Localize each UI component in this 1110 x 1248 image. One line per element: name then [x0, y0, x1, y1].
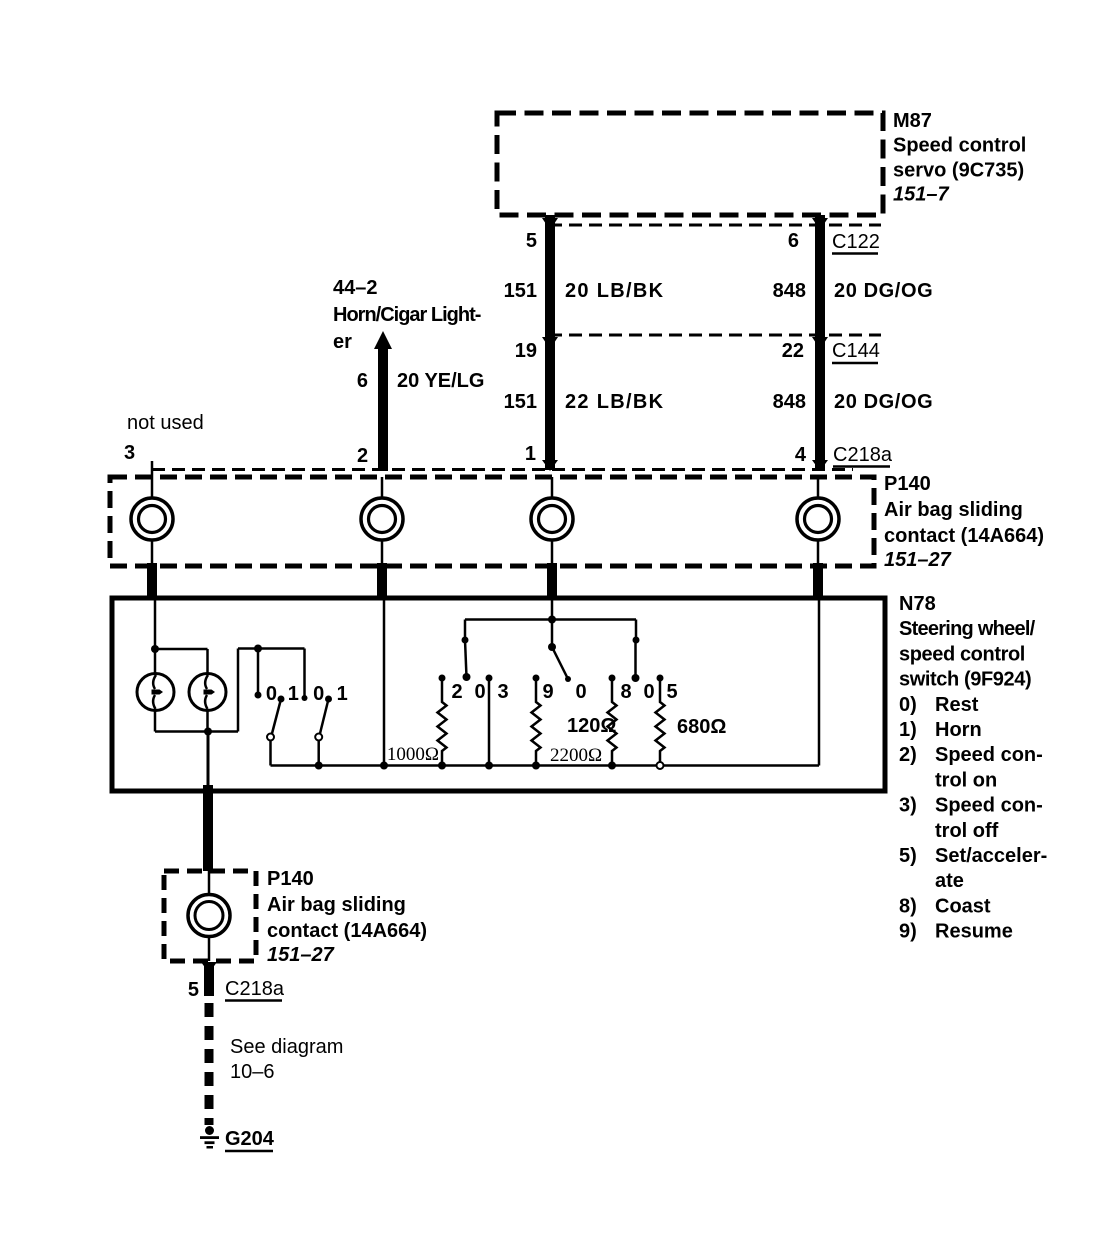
steering wheel switch box N78: [112, 598, 885, 791]
svg-text:Speed con-: Speed con-: [935, 744, 1043, 766]
svg-text:22 LB/BK: 22 LB/BK: [565, 391, 664, 413]
svg-text:0: 0: [643, 681, 654, 703]
svg-text:120Ω: 120Ω: [567, 715, 616, 737]
sliding contact spiral 1: [131, 477, 173, 566]
svg-text:Air bag sliding: Air bag sliding: [884, 499, 1023, 521]
svg-text:contact (14A664): contact (14A664): [267, 920, 427, 942]
svg-text:680Ω: 680Ω: [677, 716, 726, 738]
svg-text:speed control: speed control: [899, 643, 1025, 665]
svg-text:10–6: 10–6: [230, 1061, 275, 1083]
svg-text:44–2: 44–2: [333, 277, 378, 299]
svg-text:G204: G204: [225, 1128, 275, 1150]
dashed wire to ground: [205, 1003, 214, 1125]
resistor R1 1000 ohm: [438, 675, 447, 770]
svg-text:Air bag sliding: Air bag sliding: [267, 894, 406, 916]
air bag sliding contact box P140 lower: [164, 871, 256, 961]
svg-text:not used: not used: [127, 412, 204, 434]
connector C218a dashed line: [152, 468, 853, 471]
wire stub P140 to N78 pin4: [813, 563, 823, 600]
resistor R2 2200 ohm: [532, 675, 541, 770]
label C218a lower: [225, 978, 285, 1001]
label wire 6 20 YE/LG: [357, 370, 485, 392]
horn switch wiper 2: [315, 696, 332, 770]
label 44-2 Horn/Cigar Lighter: [333, 277, 481, 353]
resistor R4 680 ohm: [656, 675, 665, 770]
wire stub P140 to N78 pin3: [147, 563, 157, 600]
wire pin1 inside N78: [548, 598, 556, 647]
svg-text:Horn: Horn: [935, 719, 982, 741]
selector position labels 9 0: [542, 681, 586, 703]
connector C122 dashed line: [549, 224, 881, 227]
selector wiper left: [463, 640, 471, 681]
svg-text:Resume: Resume: [935, 921, 1013, 943]
label circuit 848 20 DG/OG row2: [773, 391, 934, 413]
svg-text:5: 5: [526, 230, 537, 252]
horn symbol right: [189, 674, 226, 711]
label circuit 151 20 LB/BK: [504, 280, 665, 302]
svg-text:3): 3): [899, 795, 917, 817]
svg-text:Speed con-: Speed con-: [935, 795, 1043, 817]
svg-text:C122: C122: [832, 231, 880, 253]
sliding contact spiral 3: [531, 477, 573, 566]
label G204: [225, 1128, 275, 1151]
wire pin3 branch inside N78: [151, 598, 208, 674]
svg-text:1): 1): [899, 719, 917, 741]
svg-text:2): 2): [899, 744, 917, 766]
svg-text:6: 6: [788, 230, 799, 252]
svg-text:0: 0: [474, 681, 485, 703]
wire common bottom rail: [271, 764, 820, 767]
svg-text:Coast: Coast: [935, 895, 991, 917]
label P140 Air bag sliding contact upper: [884, 473, 1044, 571]
wire horn bottoms junction: [155, 711, 238, 736]
svg-text:trol on: trol on: [935, 769, 997, 791]
wire out of lower contact with arrow: [201, 962, 217, 996]
svg-text:22: 22: [782, 340, 804, 362]
sliding contact spiral 4: [797, 477, 839, 566]
label N78 legend: [899, 593, 1047, 943]
svg-text:C144: C144: [832, 340, 880, 362]
air bag sliding contact box P140 upper: [110, 477, 874, 566]
svg-text:20 DG/OG: 20 DG/OG: [834, 391, 933, 413]
svg-text:9): 9): [899, 921, 917, 943]
svg-text:151: 151: [504, 391, 537, 413]
selector wiper center: [548, 643, 571, 682]
svg-text:6: 6: [357, 370, 368, 392]
label C144: [832, 340, 880, 363]
svg-text:1000Ω: 1000Ω: [387, 744, 439, 765]
svg-text:contact (14A664): contact (14A664): [884, 525, 1044, 547]
resistor R3 120 ohm: [608, 675, 617, 770]
label circuit 848 20 DG/OG: [773, 280, 934, 302]
label See diagram 10-6: [230, 1036, 343, 1083]
svg-text:151–7: 151–7: [893, 184, 949, 206]
connector C144 dashed line: [549, 334, 881, 337]
label M87 Speed control servo: [893, 110, 1026, 206]
svg-text:C218a: C218a: [833, 444, 893, 466]
svg-text:5: 5: [666, 681, 677, 703]
svg-text:8): 8): [899, 895, 917, 917]
svg-text:20 LB/BK: 20 LB/BK: [565, 280, 664, 302]
svg-text:0): 0): [899, 694, 917, 716]
svg-text:Steering wheel/: Steering wheel/: [899, 618, 1036, 640]
sliding contact spiral 2: [361, 477, 403, 566]
svg-text:151–27: 151–27: [267, 944, 335, 966]
wire 151 22 LB/BK (C144 to C218a): [542, 335, 558, 471]
svg-text:Horn/Cigar Light-: Horn/Cigar Light-: [333, 304, 481, 326]
svg-text:0: 0: [313, 683, 324, 705]
off-page arrow to 44-2 Horn/Cigar Lighter: [374, 331, 392, 471]
svg-text:19: 19: [515, 340, 537, 362]
horn symbol left: [137, 674, 174, 711]
label circuit 151 22 LB/BK: [504, 391, 665, 413]
wire stub pin 3: [151, 461, 154, 477]
selector position labels 8 0 5: [620, 681, 677, 703]
selector wiper right: [632, 640, 640, 682]
svg-text:3: 3: [497, 681, 508, 703]
svg-text:See diagram: See diagram: [230, 1036, 343, 1058]
wire pin2 inside N78: [380, 598, 388, 770]
svg-text:848: 848: [773, 391, 806, 413]
svg-text:trol off: trol off: [935, 820, 999, 842]
sliding contact spiral lower: [188, 871, 230, 961]
svg-text:20 DG/OG: 20 DG/OG: [834, 280, 933, 302]
svg-text:1: 1: [288, 683, 299, 705]
svg-text:1: 1: [337, 683, 348, 705]
svg-text:P140: P140: [884, 473, 931, 495]
label P140 Air bag sliding contact lower: [267, 868, 427, 966]
svg-text:1: 1: [525, 443, 536, 465]
svg-text:C218a: C218a: [225, 978, 285, 1000]
svg-text:ate: ate: [935, 870, 964, 892]
svg-text:848: 848: [773, 280, 806, 302]
svg-text:3: 3: [124, 442, 135, 464]
svg-text:Set/acceler-: Set/acceler-: [935, 845, 1047, 867]
svg-text:0: 0: [575, 681, 586, 703]
wire 151 20 LB/BK (C122 to C144): [542, 215, 558, 335]
wire 848 20 DG/OG (C122 to C144): [812, 215, 828, 335]
svg-text:151–27: 151–27: [884, 549, 952, 571]
svg-text:5): 5): [899, 845, 917, 867]
svg-text:151: 151: [504, 280, 537, 302]
wire stub P140 to N78 pin1: [547, 563, 557, 600]
svg-text:9: 9: [542, 681, 553, 703]
contact 0 stub horn switch 1: [255, 649, 262, 699]
svg-text:2: 2: [451, 681, 462, 703]
horn switch wiper 1: [267, 696, 285, 766]
svg-text:20 YE/LG: 20 YE/LG: [397, 370, 484, 392]
wire pin4 inside N78: [818, 598, 821, 766]
speed control servo box M87: [497, 113, 883, 215]
svg-text:Rest: Rest: [935, 694, 979, 716]
svg-text:2200Ω: 2200Ω: [550, 745, 602, 766]
wire stub P140 to N78 pin2: [377, 563, 387, 600]
wire N78 output to lower contact: [203, 732, 213, 872]
label C218a: [833, 444, 893, 467]
selector position labels 2 0 3: [451, 681, 508, 703]
svg-text:0: 0: [266, 683, 277, 705]
svg-text:M87: M87: [893, 110, 932, 132]
svg-text:2: 2: [357, 445, 368, 467]
ground G204: [200, 1126, 219, 1149]
svg-text:servo (9C735): servo (9C735): [893, 160, 1024, 182]
wire horn switch feed rail: [238, 645, 305, 732]
svg-text:N78: N78: [899, 593, 936, 615]
svg-text:5: 5: [188, 979, 199, 1001]
wire 848 20 DG/OG (C144 to C218a): [812, 335, 828, 471]
svg-text:4: 4: [795, 444, 807, 466]
svg-text:P140: P140: [267, 868, 314, 890]
switch position labels 0 1 0 1: [266, 683, 348, 705]
contact 1 drop horn switch: [302, 649, 308, 702]
svg-text:er: er: [333, 331, 352, 353]
svg-text:8: 8: [620, 681, 631, 703]
wire selector feed rail: [462, 620, 640, 644]
svg-text:Speed control: Speed control: [893, 135, 1026, 157]
wire contact 3: [485, 675, 493, 770]
svg-text:switch (9F924): switch (9F924): [899, 669, 1031, 691]
label C122: [832, 231, 880, 254]
